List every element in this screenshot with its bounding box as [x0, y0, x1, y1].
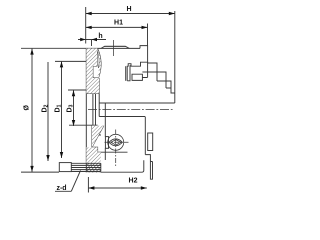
rear hub block 2 bottom — [157, 81, 175, 93]
wedge left wall — [91, 125, 93, 147]
extension line D1 top — [55, 60, 89, 62]
extension line H1 right — [147, 24, 149, 46]
body bottom edge — [86, 160, 143, 172]
label D3 rotated — [67, 104, 75, 112]
bore step verticals through center — [92, 94, 94, 126]
screw shank thread lines — [72, 163, 101, 171]
jaw step mid — [86, 66, 99, 78]
dimension H1 line — [86, 26, 148, 29]
jaw strip centerline — [113, 40, 115, 56]
svg-text:1: 1 — [57, 104, 63, 107]
dimension D2 vertical — [46, 62, 49, 161]
hatch strip above screw — [86, 147, 101, 163]
body front face upper — [96, 48, 98, 66]
chuck body top edge — [86, 47, 140, 49]
leader line z-d — [71, 171, 80, 192]
wedge-bar boot shape — [127, 62, 147, 81]
jaw inner face upper — [91, 48, 93, 66]
lower rear block — [148, 133, 153, 151]
svg-text:2: 2 — [44, 104, 50, 107]
label D1 rotated — [55, 104, 63, 112]
jaw curve inner — [97, 51, 99, 69]
extension line right back plane — [174, 11, 176, 103]
svg-text:Ø: Ø — [24, 105, 31, 111]
hatch wedge triangle — [92, 126, 104, 148]
svg-text:3: 3 — [69, 104, 75, 107]
jaw outer face full height — [85, 48, 87, 172]
slot floor line upper — [98, 78, 100, 117]
jaw band step line — [86, 93, 99, 95]
pinion circle — [108, 134, 124, 150]
boot to hub link line — [142, 71, 147, 73]
hatch thin below screw — [86, 172, 101, 173]
pinion shaft box — [105, 137, 108, 149]
hatch upper band A — [86, 48, 97, 66]
hatch mid block — [86, 66, 93, 78]
lower rear: back face — [144, 117, 146, 155]
pinion centerline horizontal — [105, 141, 129, 143]
extension line bottom OD — [21, 171, 59, 173]
bore top line — [99, 102, 175, 104]
pinion inner diamond — [111, 140, 121, 145]
extension line left front plane — [85, 7, 87, 44]
lower band step line + D3 lower extension — [69, 124, 98, 126]
svg-text:H: H — [126, 6, 131, 13]
bore bottom line — [99, 116, 145, 118]
top rear tab — [140, 46, 148, 64]
hatch over screw bore (body section) — [86, 163, 101, 171]
dimension O vertical — [30, 49, 33, 172]
top jaw strip — [101, 46, 129, 48]
guideway wedge lower: diagonal — [92, 126, 104, 148]
jaw curve outer — [98, 48, 102, 76]
extension tick for h — [91, 39, 93, 46]
svg-text:H2: H2 — [129, 178, 138, 185]
extension line H2 left — [87, 177, 89, 193]
clamping screw head box — [59, 163, 71, 172]
dimension h line — [78, 38, 106, 41]
dimension H2 line — [88, 186, 146, 189]
wedge inner line — [92, 134, 101, 136]
pinion lens (bevel teeth) — [109, 139, 122, 146]
hatch curve sliver — [97, 48, 101, 76]
pinion centerline vertical — [115, 130, 117, 167]
hatch lower block B — [86, 78, 99, 94]
dimension D3 vertical — [72, 90, 75, 126]
svg-text:h: h — [98, 33, 102, 40]
slot wall line — [104, 103, 106, 137]
dimension D1 vertical — [60, 61, 63, 158]
rear hub block 1 — [148, 63, 166, 88]
svg-text:H1: H1 — [114, 20, 123, 27]
screw shank end — [100, 163, 102, 171]
lower rear notch and stud — [145, 155, 152, 180]
extension line D3 top — [68, 89, 97, 91]
extension line top OD — [21, 47, 86, 49]
wedge bottom — [92, 147, 128, 152]
dimension H line — [86, 12, 175, 15]
label D2 rotated — [42, 104, 50, 112]
boot left slot double line — [125, 66, 127, 81]
main centerline dash-dot — [88, 109, 174, 111]
